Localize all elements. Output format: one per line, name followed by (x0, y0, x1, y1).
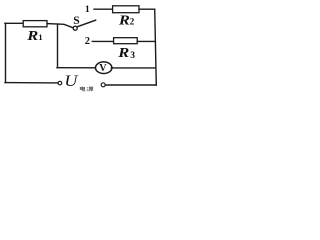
svg-text:3: 3 (130, 51, 135, 61)
svg-text:2: 2 (85, 36, 90, 47)
svg-text:U: U (64, 73, 79, 90)
resistor R2 (113, 6, 139, 13)
svg-text:R: R (118, 13, 130, 28)
switch S lever (77, 20, 96, 27)
wire terminal 2 to R3 (92, 40, 113, 42)
svg-text:R: R (26, 29, 38, 44)
label 电 (dian) (80, 87, 85, 91)
terminal circle left (power) (58, 81, 62, 85)
wire R2 to top-right corner (139, 8, 155, 10)
resistor R3 (114, 38, 138, 44)
wire junction down to voltmeter (57, 24, 59, 68)
switch S pivot circle (73, 26, 77, 30)
label 源 (yuan) (87, 87, 94, 91)
wire terminal 1 to R2 (94, 8, 113, 10)
svg-text:2: 2 (130, 16, 135, 26)
wire junction to voltmeter left (57, 67, 96, 69)
svg-text:V: V (99, 63, 107, 74)
wire R3 to right vertical (137, 40, 155, 42)
svg-text:S: S (73, 14, 79, 27)
resistor R1 (23, 21, 47, 27)
wire left vertical (5, 23, 7, 82)
svg-text:1: 1 (85, 4, 90, 15)
svg-text:1: 1 (38, 33, 42, 42)
wire R1 to switch pivot (47, 24, 73, 28)
wire voltmeter right (111, 67, 155, 69)
wire bottom-right (105, 84, 156, 86)
voltmeter V ellipse (96, 62, 112, 74)
wire top-left horizontal (5, 22, 23, 24)
wire right vertical (155, 9, 157, 85)
wire bottom-left (5, 82, 58, 84)
terminal circle right (power) (101, 83, 105, 87)
svg-text:R: R (117, 46, 129, 61)
